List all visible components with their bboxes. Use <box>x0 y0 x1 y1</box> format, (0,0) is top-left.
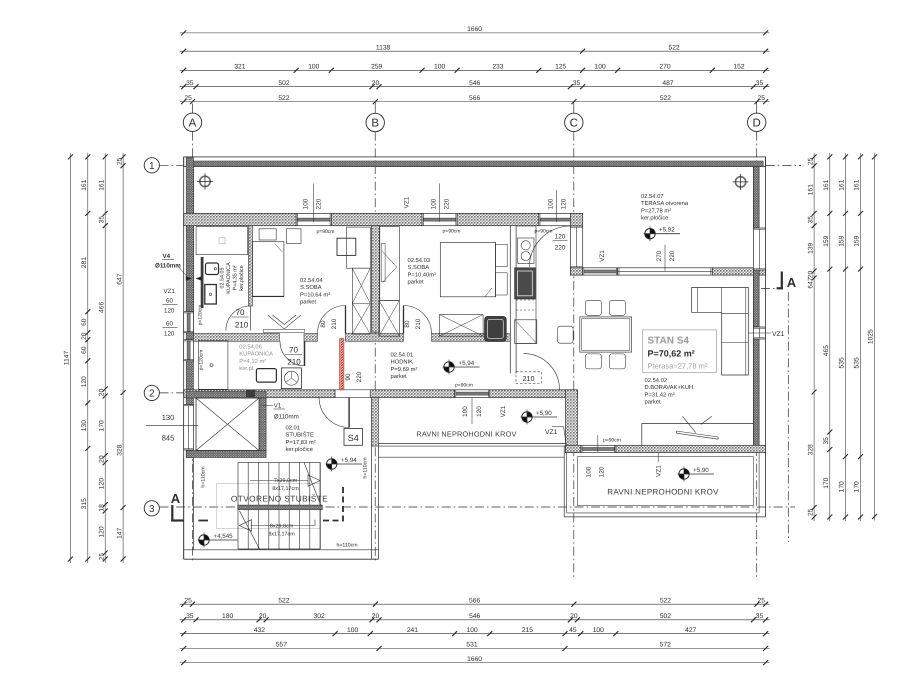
room label dnevni boravak 02.54.02 <box>645 377 696 406</box>
svg-text:ker.pločice: ker.pločice <box>239 265 245 290</box>
svg-text:KUPAONICA: KUPAONICA <box>226 262 232 294</box>
svg-text:20: 20 <box>807 271 814 279</box>
grid row line 3 / section A-A (dash-dot) <box>160 506 796 508</box>
level marker +5,90 <box>678 467 714 482</box>
svg-text:487: 487 <box>662 80 673 87</box>
svg-text:120: 120 <box>98 526 105 537</box>
dimension row top axes <box>180 95 770 104</box>
svg-text:647: 647 <box>807 277 814 288</box>
svg-text:546: 546 <box>469 613 480 620</box>
svg-text:220: 220 <box>316 198 323 209</box>
level marker +4,545 <box>198 533 238 548</box>
svg-text:170: 170 <box>98 420 105 431</box>
soba03 wardrobe cross box <box>379 300 399 336</box>
svg-text:125: 125 <box>555 64 566 71</box>
svg-text:1: 1 <box>149 161 155 172</box>
section line vertical right (dash-dot) <box>787 292 789 542</box>
svg-text:25: 25 <box>807 508 814 516</box>
terrace window label 270/220 and VZ1 <box>599 245 676 271</box>
svg-text:215: 215 <box>522 627 533 634</box>
svg-text:TERASA otvorena: TERASA otvorena <box>641 200 689 207</box>
dimension column left chain 3 <box>98 153 107 563</box>
svg-text:P=9,69 m²: P=9,69 m² <box>391 366 418 373</box>
grid line C (dash-dot) <box>573 102 575 114</box>
svg-text:522: 522 <box>278 597 289 604</box>
dimension row bottom openings <box>180 627 770 636</box>
bathroom 05 door 70/210 with arc <box>226 306 251 331</box>
svg-text:161: 161 <box>81 179 88 190</box>
svg-text:Pterasa=27,78 m²: Pterasa=27,78 m² <box>648 362 708 371</box>
stair break line upper <box>304 462 321 506</box>
svg-text:p=90cm: p=90cm <box>603 438 621 444</box>
svg-text:VZ1: VZ1 <box>500 405 507 417</box>
svg-text:P=4,35 m²: P=4,35 m² <box>233 265 239 290</box>
svg-text:502: 502 <box>278 80 289 87</box>
svg-text:557: 557 <box>276 642 287 649</box>
sofa L-shaped <box>692 288 749 376</box>
svg-text:ker.pl.: ker.pl. <box>239 365 255 372</box>
partition kitchen|soba03 <box>510 226 516 374</box>
svg-text:25: 25 <box>184 597 192 604</box>
soba04 desk box <box>337 238 356 255</box>
main upper-rooms exterior wall (south of balcony strip) <box>184 213 539 225</box>
terrace opening 139 in right wall <box>753 228 765 270</box>
svg-text:220: 220 <box>444 198 451 209</box>
window2 label 100/220 and VZ1 <box>404 184 461 235</box>
window 100/120 living south <box>581 445 616 452</box>
door soba04 80/210 label and arc <box>318 306 346 334</box>
svg-text:546: 546 <box>469 80 480 87</box>
level marker +5,92 <box>644 226 680 241</box>
svg-text:1147: 1147 <box>64 350 71 365</box>
elevator shaft walls <box>186 392 266 458</box>
svg-text:V4: V4 <box>163 253 171 260</box>
svg-text:P=17,83 m²: P=17,83 m² <box>286 439 316 446</box>
svg-text:100: 100 <box>467 627 478 634</box>
terrace south / living north wall <box>570 268 765 275</box>
interior wall bath05|soba04 partition <box>248 226 252 306</box>
svg-text:531: 531 <box>466 642 477 649</box>
window1 label 100/220 <box>303 184 335 236</box>
bath05 plumbing wall (dark) <box>201 257 204 308</box>
svg-text:35: 35 <box>756 80 764 87</box>
dimension row bottom axes <box>180 597 770 606</box>
kitchen counter <box>516 226 536 344</box>
svg-text:70: 70 <box>236 308 245 317</box>
svg-text:161: 161 <box>854 179 861 190</box>
svg-text:+5,90: +5,90 <box>693 467 709 474</box>
svg-text:120: 120 <box>555 234 566 241</box>
svg-text:220: 220 <box>356 371 363 382</box>
svg-text:159: 159 <box>854 235 861 246</box>
door hodnik-living 210 label and arc <box>516 354 560 390</box>
svg-text:161: 161 <box>807 184 814 195</box>
section mark A right <box>761 272 797 291</box>
svg-text:120: 120 <box>599 466 606 477</box>
svg-text:522: 522 <box>669 44 680 51</box>
svg-text:P=4,12 m²: P=4,12 m² <box>239 358 266 365</box>
VZ1 label right wall with leader <box>749 331 785 338</box>
slab void dashed outline <box>322 487 343 521</box>
terrace door label 120/220 <box>553 234 568 252</box>
svg-text:8x17,17cm: 8x17,17cm <box>272 486 299 492</box>
svg-text:P=31,42 m²: P=31,42 m² <box>645 391 675 398</box>
svg-text:2: 2 <box>149 389 155 400</box>
svg-text:70: 70 <box>289 346 298 355</box>
svg-text:220: 220 <box>669 250 676 261</box>
interior wall rooms|hodnik (horizontal) <box>194 334 511 342</box>
svg-text:100: 100 <box>462 406 469 417</box>
svg-text:20: 20 <box>81 332 88 340</box>
svg-text:25: 25 <box>99 553 106 561</box>
svg-text:161: 161 <box>839 179 846 190</box>
svg-text:3: 3 <box>149 504 155 515</box>
stair id box S4 <box>344 429 363 446</box>
dimension column right chain 4 <box>854 153 863 521</box>
svg-text:parket: parket <box>408 279 425 286</box>
window 60/120 in left wall (upper) <box>184 312 194 333</box>
grid bubble C <box>565 113 583 131</box>
svg-text:566: 566 <box>469 95 480 102</box>
svg-text:A: A <box>787 275 797 290</box>
svg-text:152: 152 <box>733 64 744 71</box>
svg-text:535: 535 <box>854 357 861 368</box>
svg-text:80: 80 <box>320 320 327 328</box>
room label soba 02.54.04 <box>300 277 330 306</box>
chimney block dark <box>246 390 255 397</box>
stairs lower flight treads <box>238 510 320 549</box>
svg-text:130: 130 <box>162 413 175 422</box>
soba04 wardrobe top right <box>346 227 370 268</box>
svg-text:VZ1: VZ1 <box>772 331 785 338</box>
svg-text:80: 80 <box>404 320 411 328</box>
svg-text:321: 321 <box>234 64 245 71</box>
svg-text:1660: 1660 <box>467 656 482 663</box>
svg-text:60: 60 <box>81 318 88 326</box>
kup06 toilet <box>281 368 301 389</box>
roof drain symbol <box>733 174 749 190</box>
entry door opening 100 (hodnik-stairs) <box>335 390 370 398</box>
elevator shaft cabin with cross <box>196 398 259 451</box>
svg-text:+5,92: +5,92 <box>659 227 675 234</box>
svg-text:P=10,40m²: P=10,40m² <box>408 271 437 278</box>
stairs upper flight treads <box>238 462 320 549</box>
svg-text:100: 100 <box>434 64 445 71</box>
svg-text:120: 120 <box>81 376 88 387</box>
svg-text:02.54.07: 02.54.07 <box>641 193 664 200</box>
svg-text:02.54.06: 02.54.06 <box>239 344 262 351</box>
wall C segment <box>566 390 578 453</box>
svg-text:100: 100 <box>548 198 555 209</box>
svg-text:210: 210 <box>331 318 338 329</box>
svg-text:522: 522 <box>660 95 671 102</box>
stair void light outline <box>217 484 321 529</box>
kitchen stove dark <box>515 268 536 299</box>
svg-text:432: 432 <box>254 627 265 634</box>
shaft labels V1 and diameter <box>263 403 299 421</box>
svg-text:S4: S4 <box>348 433 359 443</box>
stairs lower flight direction arrow <box>240 520 316 532</box>
level marker +5,94 <box>443 360 480 375</box>
soba03 low cabinet with cross <box>439 315 483 337</box>
level marker +5,90 <box>521 410 557 425</box>
apartment title box STAN S4 <box>643 330 717 373</box>
soba03 double bed <box>440 243 507 297</box>
right exterior wall <box>753 157 765 453</box>
svg-text:S.SOBA: S.SOBA <box>300 284 322 291</box>
svg-text:25: 25 <box>116 157 123 165</box>
bath05 shower tray <box>196 227 248 255</box>
svg-text:h=110cm: h=110cm <box>201 466 207 487</box>
svg-text:465: 465 <box>823 345 830 356</box>
svg-text:VZ1: VZ1 <box>164 288 176 295</box>
living sideboard along south wall <box>642 424 754 446</box>
svg-text:1138: 1138 <box>376 44 391 51</box>
kup06 washbasin <box>256 369 276 383</box>
room label stubiste 02.01 <box>286 425 316 454</box>
svg-text:315: 315 <box>81 498 88 509</box>
V4 leader arrows into wall <box>176 264 202 281</box>
svg-text:147: 147 <box>116 527 123 538</box>
svg-text:20: 20 <box>372 80 380 87</box>
outer top parapet wall <box>184 157 766 167</box>
svg-text:100: 100 <box>595 64 606 71</box>
svg-text:60: 60 <box>166 321 173 328</box>
svg-text:100: 100 <box>431 198 438 209</box>
dimension row top walls <box>180 80 770 89</box>
soba03 wardrobe strip <box>380 227 400 301</box>
svg-text:D: D <box>753 117 761 129</box>
window 60/120 in left wall (lower) <box>184 340 194 361</box>
svg-text:35: 35 <box>186 613 194 620</box>
svg-text:170: 170 <box>823 477 830 488</box>
dimension row top detail <box>180 64 770 73</box>
svg-text:210: 210 <box>523 374 535 383</box>
dimension row bottom 557/531/572 <box>180 642 770 651</box>
stairs upper flight direction arrow <box>250 475 320 486</box>
dimension column right chain 3 <box>839 153 848 521</box>
svg-text:ker.pločice: ker.pločice <box>641 215 668 222</box>
svg-text:427: 427 <box>685 627 696 634</box>
svg-text:p=120cm: p=120cm <box>199 350 205 371</box>
svg-text:Ø110mm: Ø110mm <box>274 414 299 421</box>
svg-text:1660: 1660 <box>467 26 482 33</box>
terrace door 270/220 <box>618 268 713 275</box>
door label 70/210 bath05 <box>232 308 249 330</box>
kitchen-terrace door arc <box>529 226 570 267</box>
svg-text:20: 20 <box>372 613 380 620</box>
svg-text:159: 159 <box>823 235 830 246</box>
living south window label 100/120 VZ1 <box>586 435 663 477</box>
svg-text:572: 572 <box>660 642 671 649</box>
svg-text:ker.pločice: ker.pločice <box>286 446 313 453</box>
svg-text:466: 466 <box>98 302 105 313</box>
svg-text:VZ1: VZ1 <box>599 250 606 262</box>
dining chairs <box>558 300 626 369</box>
grid bubble B <box>366 113 384 131</box>
svg-text:159: 159 <box>839 235 846 246</box>
dimension column right chain 2 <box>823 153 832 521</box>
bath05 toilet <box>205 285 217 305</box>
svg-text:120: 120 <box>476 406 483 417</box>
svg-text:535: 535 <box>839 357 846 368</box>
svg-text:RAVNI NEPROHODNI KROV: RAVNI NEPROHODNI KROV <box>416 430 516 439</box>
svg-text:+5,90: +5,90 <box>536 410 552 417</box>
grid row line 2 (dash-dot) <box>160 392 185 394</box>
level marker +5,94 <box>325 457 362 472</box>
room label kupaonica 02.54.06 <box>239 344 273 373</box>
grid bubble 2 <box>144 385 159 400</box>
dimension row top 1138/522 <box>180 44 770 53</box>
svg-text:RAVNI NEPROHODNI KROV: RAVNI NEPROHODNI KROV <box>607 488 719 497</box>
dimension column right 1025 <box>868 153 877 521</box>
svg-text:25: 25 <box>807 157 814 165</box>
left wall lower thin part (open staircase parapet) <box>184 458 194 560</box>
svg-text:V1: V1 <box>274 403 282 410</box>
kup06 shower <box>199 341 228 390</box>
svg-text:18: 18 <box>98 504 105 512</box>
svg-text:25: 25 <box>184 95 192 102</box>
soba04 wardrobe with cross <box>352 268 370 334</box>
door soba03 80/210 label and arc <box>404 306 432 334</box>
svg-text:35: 35 <box>573 80 581 87</box>
section mark A left <box>171 491 184 521</box>
left exterior wall <box>184 157 194 559</box>
svg-text:Ø110mm: Ø110mm <box>155 263 181 270</box>
svg-text:220: 220 <box>555 245 566 252</box>
grid bubble 3 <box>144 501 159 516</box>
svg-text:328: 328 <box>116 444 123 455</box>
room label kupaonica 02.54.05 (rotated) <box>220 262 246 294</box>
svg-text:S.SOBA: S.SOBA <box>408 264 430 271</box>
svg-text:parket: parket <box>300 299 317 306</box>
middle flat roof outline <box>379 444 566 458</box>
svg-text:100: 100 <box>308 64 319 71</box>
svg-text:170: 170 <box>839 481 846 492</box>
svg-text:241: 241 <box>407 627 418 634</box>
svg-text:B: B <box>371 118 379 130</box>
svg-text:170: 170 <box>854 481 861 492</box>
svg-text:35: 35 <box>186 80 194 87</box>
svg-text:647: 647 <box>116 273 123 284</box>
terrace door 120/220 in west wall <box>570 226 582 268</box>
svg-text:45: 45 <box>569 627 577 634</box>
window 100/220 no.1 in main wall <box>296 213 331 225</box>
soba04 bed <box>252 229 284 297</box>
svg-text:02.01: 02.01 <box>286 425 301 432</box>
grid line A (dash-dot) <box>192 104 194 114</box>
dimension column right chain 1 <box>807 153 816 521</box>
svg-text:02.54.02: 02.54.02 <box>645 377 668 384</box>
stair zone east boundary (B wall thin) <box>372 398 379 560</box>
svg-text:02.54.04: 02.54.04 <box>300 277 323 284</box>
kitchen sink unit <box>518 238 535 263</box>
svg-text:100: 100 <box>347 627 358 634</box>
dimension row bottom walls <box>180 613 770 622</box>
svg-text:502: 502 <box>660 613 671 620</box>
grid bubble A <box>183 113 201 131</box>
red vent shaft wall hodnik|kupaonica06 <box>340 339 344 390</box>
soba04 nightstand <box>287 229 302 244</box>
window 100/120 no.3 in main wall (kitchen) <box>539 213 574 225</box>
VZ1 label mid-roof horizontal <box>545 427 567 447</box>
grid line B (dash-dot) <box>374 102 376 114</box>
svg-text:328: 328 <box>807 444 814 455</box>
svg-text:566: 566 <box>469 597 480 604</box>
svg-text:20: 20 <box>259 613 267 620</box>
svg-text:1025: 1025 <box>868 329 875 344</box>
stair window dims 130 / 845 <box>146 413 198 443</box>
grid bubble 1 <box>144 158 159 173</box>
room label soba 02.54.03 <box>408 257 437 286</box>
entry door arc <box>319 398 349 428</box>
svg-text:120: 120 <box>164 331 175 338</box>
dimension row top 1660 <box>180 26 770 35</box>
svg-text:210: 210 <box>235 321 249 330</box>
svg-text:parket: parket <box>645 399 662 406</box>
svg-text:233: 233 <box>492 64 503 71</box>
svg-text:35: 35 <box>756 613 764 620</box>
grid line D (dash-dot) <box>756 102 758 114</box>
svg-text:100: 100 <box>593 627 604 634</box>
bath05 sink <box>206 263 219 275</box>
grid bubble D <box>748 113 766 131</box>
svg-text:C: C <box>570 117 578 129</box>
terrace west wall <box>570 213 582 275</box>
grid row line 1 (dash-dot) <box>160 164 184 166</box>
svg-text:120: 120 <box>98 478 105 489</box>
svg-text:A: A <box>171 491 181 506</box>
door kup06 70/210 label and arc <box>280 341 305 366</box>
svg-text:130: 130 <box>81 420 88 431</box>
svg-text:02.54.05: 02.54.05 <box>220 268 226 289</box>
svg-text:180: 180 <box>222 613 233 620</box>
svg-text:845: 845 <box>162 434 175 443</box>
svg-text:522: 522 <box>278 95 289 102</box>
svg-text:522: 522 <box>660 597 671 604</box>
svg-text:60: 60 <box>166 298 173 305</box>
svg-text:02.54.03: 02.54.03 <box>408 257 431 264</box>
svg-text:D.BORAVAK+KUH.: D.BORAVAK+KUH. <box>645 384 696 391</box>
left outside labels V4 / diameter <box>155 253 181 270</box>
svg-text:270: 270 <box>659 64 670 71</box>
svg-text:P=27,78 m²: P=27,78 m² <box>641 207 671 214</box>
svg-text:100: 100 <box>303 198 310 209</box>
svg-text:139: 139 <box>807 242 814 253</box>
window 100/220 no.2 in main wall <box>422 213 457 225</box>
svg-text:35: 35 <box>98 216 105 224</box>
dimension column left chain 4 <box>116 153 125 563</box>
svg-text:02.54.01: 02.54.01 <box>391 352 414 359</box>
svg-text:P=70,62 m²: P=70,62 m² <box>648 349 695 359</box>
svg-text:8x29,0cm: 8x29,0cm <box>270 524 294 530</box>
kitchen base cabinet <box>515 300 537 344</box>
svg-text:270: 270 <box>656 250 663 261</box>
room label terasa 02.54.07 <box>641 193 689 222</box>
stair zone south parapet <box>184 550 379 559</box>
svg-text:60: 60 <box>81 346 88 354</box>
window 100/120 hodnik south <box>455 390 490 398</box>
svg-text:VZ1: VZ1 <box>404 196 411 208</box>
svg-text:p=90cm: p=90cm <box>317 229 335 235</box>
svg-text:HODNIK: HODNIK <box>391 359 414 366</box>
stair mid landing edge (hatched) <box>238 505 322 510</box>
window 100 living-terrace <box>583 268 618 275</box>
soba03 dark dresser <box>485 316 507 341</box>
stair break line lower <box>240 511 260 549</box>
decor bar and plant lines <box>676 416 718 439</box>
svg-text:+5,94: +5,94 <box>341 457 357 464</box>
